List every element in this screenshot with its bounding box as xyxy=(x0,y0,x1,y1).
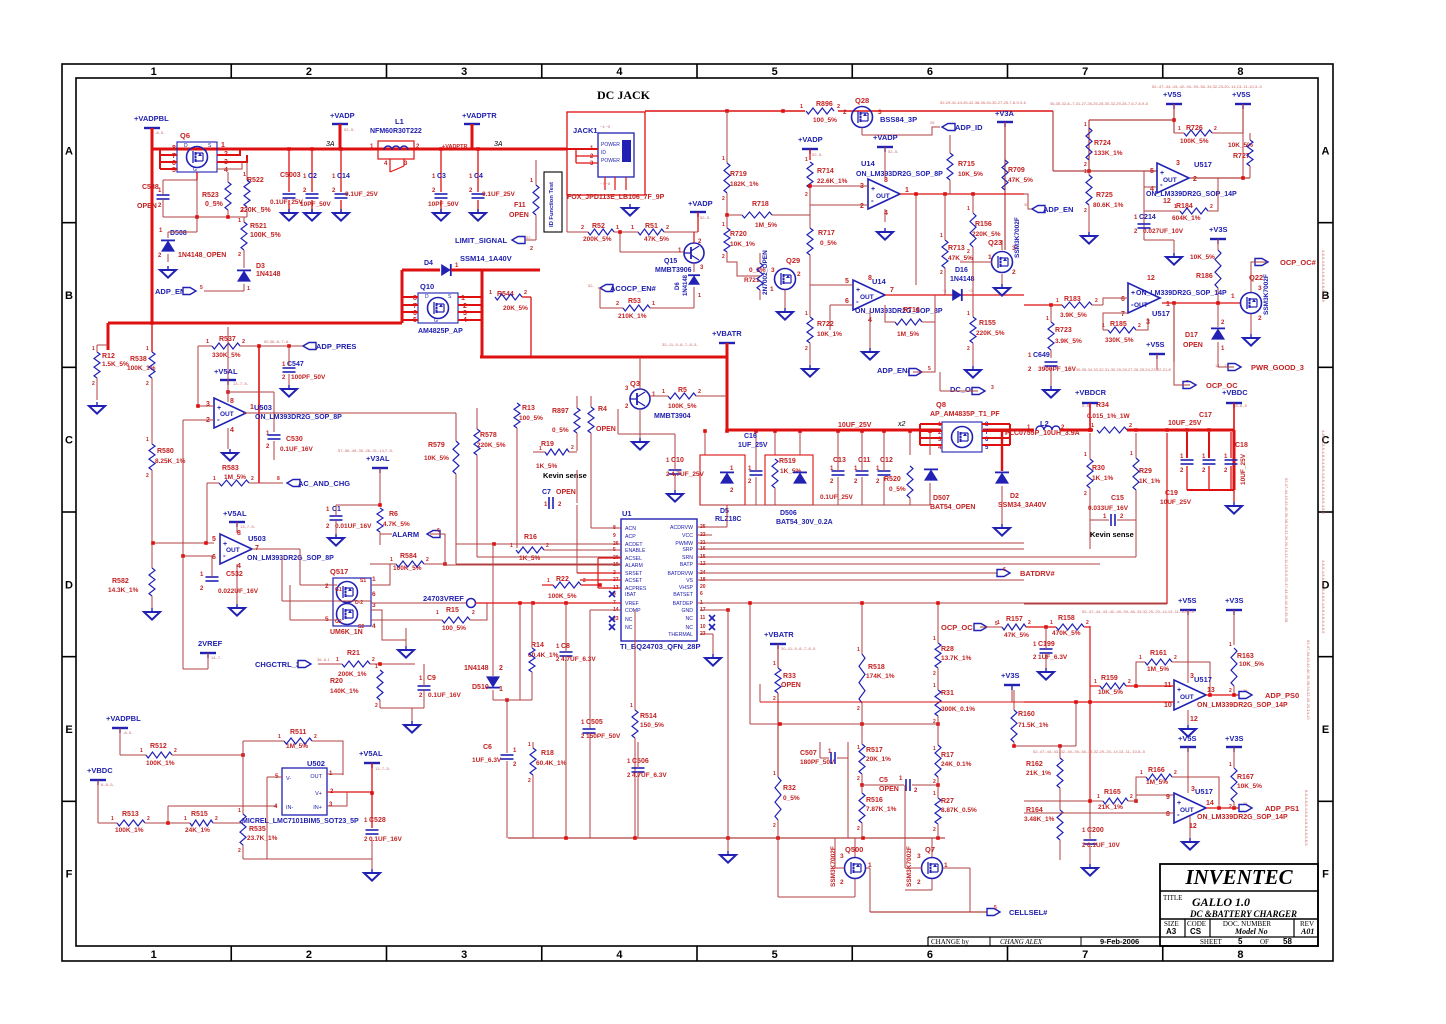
svg-text:2: 2 xyxy=(1086,620,1089,626)
svg-text:+: + xyxy=(1177,800,1181,807)
svg-text:SSM3K7002F: SSM3K7002F xyxy=(1263,274,1270,315)
svg-text:Q28: Q28 xyxy=(855,96,869,105)
svg-text:+: + xyxy=(1131,290,1135,297)
svg-text:21K_1%: 21K_1% xyxy=(1026,770,1051,777)
svg-text:1: 1 xyxy=(698,293,701,299)
svg-text:220K_5%: 220K_5% xyxy=(240,207,272,214)
svg-text:0.1UF_16V: 0.1UF_16V xyxy=(280,446,314,453)
svg-text:BAT54_OPEN: BAT54_OPEN xyxy=(930,504,975,511)
svg-text:OUT: OUT xyxy=(1134,302,1148,309)
svg-text:AC_AND_CHG: AC_AND_CHG xyxy=(298,479,350,488)
svg-text:U517: U517 xyxy=(1194,160,1212,169)
svg-text:SRSET: SRSET xyxy=(625,571,643,577)
svg-text:4.7UF_25V: 4.7UF_25V xyxy=(671,471,705,478)
svg-text:100PF_50V: 100PF_50V xyxy=(291,374,326,381)
svg-text:R523: R523 xyxy=(202,192,219,199)
svg-text:+VBATR: +VBATR xyxy=(712,329,742,338)
svg-text:+V3S: +V3S xyxy=(1209,225,1228,234)
svg-text:52-47-44-43-42-40-39-38-34-32-: 52-47-44-43-42-40-39-38-34-32-29-20-14-1… xyxy=(1284,478,1289,623)
svg-text:1: 1 xyxy=(1084,452,1087,458)
svg-text:R53: R53 xyxy=(628,298,641,305)
svg-text:8: 8 xyxy=(1166,811,1170,818)
svg-text:R162: R162 xyxy=(1026,761,1043,768)
svg-text:8.25K_1%: 8.25K_1% xyxy=(155,458,186,465)
svg-text:R30: R30 xyxy=(1092,465,1105,472)
svg-text:1: 1 xyxy=(238,218,241,224)
svg-text:2: 2 xyxy=(1028,620,1031,626)
svg-text:G1: G1 xyxy=(335,587,342,593)
svg-text:C10: C10 xyxy=(671,457,684,464)
svg-text:2: 2 xyxy=(146,473,149,479)
svg-text:F: F xyxy=(1322,869,1329,881)
svg-text:Q6: Q6 xyxy=(180,131,190,140)
svg-text:100_5%: 100_5% xyxy=(442,625,466,632)
svg-text:R155: R155 xyxy=(979,320,996,327)
svg-text:OCP_OC#: OCP_OC# xyxy=(1280,258,1317,267)
svg-text:2: 2 xyxy=(933,719,936,725)
svg-text:POWER: POWER xyxy=(601,158,620,164)
svg-text:1: 1 xyxy=(1174,204,1177,210)
svg-text:R514: R514 xyxy=(640,713,657,720)
svg-text:R578: R578 xyxy=(480,432,497,439)
svg-text:1: 1 xyxy=(997,620,1000,626)
svg-text:1: 1 xyxy=(1231,293,1235,300)
svg-text:C13: C13 xyxy=(833,457,846,464)
svg-text:S1: S1 xyxy=(360,578,366,584)
svg-text:10K_5%: 10K_5% xyxy=(1237,783,1262,790)
svg-text:R715: R715 xyxy=(958,161,975,168)
svg-text:C4: C4 xyxy=(474,173,483,180)
svg-text:R13: R13 xyxy=(522,405,535,412)
svg-text:R15: R15 xyxy=(446,607,459,614)
svg-text:60.4K_1%: 60.4K_1% xyxy=(528,652,559,659)
svg-text:A01: A01 xyxy=(1300,927,1314,936)
svg-text:ON_UM393DR2G_SOP_8P: ON_UM393DR2G_SOP_8P xyxy=(855,308,943,315)
svg-text:2: 2 xyxy=(375,703,378,709)
svg-text:30-.11-.9-.8-.7-.6-.5: 30-.11-.9-.8-.7-.6-.5 xyxy=(781,646,816,651)
svg-text:+VBDC: +VBDC xyxy=(87,766,113,775)
svg-text:1: 1 xyxy=(547,578,550,584)
svg-text:R159: R159 xyxy=(1101,675,1118,682)
svg-text:F: F xyxy=(66,869,73,881)
svg-text:3: 3 xyxy=(771,267,775,274)
svg-text:6: 6 xyxy=(1003,567,1006,573)
svg-text:U517: U517 xyxy=(1194,675,1212,684)
svg-text:+V3AL: +V3AL xyxy=(366,454,390,463)
svg-text:1: 1 xyxy=(967,311,970,317)
svg-text:R516: R516 xyxy=(866,797,883,804)
svg-text:R718: R718 xyxy=(752,201,769,208)
svg-text:0.1UF_25V: 0.1UF_25V xyxy=(820,494,854,501)
svg-text:1: 1 xyxy=(151,66,157,78)
svg-text:+V5AL: +V5AL xyxy=(214,367,238,376)
svg-text:PWR_GOOD_3: PWR_GOOD_3 xyxy=(1251,363,1304,372)
svg-text:6: 6 xyxy=(927,66,933,78)
svg-text:C15: C15 xyxy=(1111,495,1124,502)
svg-text:1: 1 xyxy=(146,346,149,352)
svg-text:150_5%: 150_5% xyxy=(640,722,664,729)
svg-text:3.48K_1%: 3.48K_1% xyxy=(1024,816,1055,823)
svg-text:7: 7 xyxy=(890,287,894,294)
svg-text:ADP_EN#: ADP_EN# xyxy=(877,366,912,375)
svg-text:C214: C214 xyxy=(1139,214,1156,221)
svg-text:1: 1 xyxy=(805,311,808,317)
svg-text:OCP_OC: OCP_OC xyxy=(941,623,973,632)
svg-text:1M_5%: 1M_5% xyxy=(224,474,246,481)
svg-text:1: 1 xyxy=(278,734,281,740)
svg-text:ON_LM393DR2G_SOP_8P: ON_LM393DR2G_SOP_8P xyxy=(247,555,334,562)
svg-text:OUT: OUT xyxy=(310,774,322,780)
svg-text:23.7K_1%: 23.7K_1% xyxy=(247,835,278,842)
svg-text:57-.56-.49-.30-.26-.31-.14,7-.: 57-.56-.49-.30-.26-.31-.14,7-.5- xyxy=(338,448,394,453)
svg-text:4-8-6-4-8-6-4-8-6-4-8-6-4-8-6-: 4-8-6-4-8-6-4-8-6-4-8-6-4-8-6-4-8-6-4-8-… xyxy=(1321,430,1326,515)
svg-text:2: 2 xyxy=(1130,794,1133,800)
svg-text:0.1UF_25V: 0.1UF_25V xyxy=(345,191,379,198)
svg-text:71.5K_1%: 71.5K_1% xyxy=(1018,722,1049,729)
svg-text:0.033UF_16V: 0.033UF_16V xyxy=(1088,505,1129,512)
svg-text:DC JACK: DC JACK xyxy=(597,88,651,102)
svg-text:BATP: BATP xyxy=(680,562,694,568)
svg-text:V-: V- xyxy=(286,776,291,782)
svg-text:R21: R21 xyxy=(347,650,360,657)
svg-text:1: 1 xyxy=(390,557,393,563)
svg-text:GND: GND xyxy=(681,608,693,614)
svg-text:R51: R51 xyxy=(645,223,658,230)
svg-text:BATSET: BATSET xyxy=(673,592,694,598)
svg-text:330K_5%: 330K_5% xyxy=(212,352,241,359)
svg-text:3: 3 xyxy=(1176,160,1180,167)
svg-text:2: 2 xyxy=(967,249,970,255)
svg-text:1: 1 xyxy=(1140,770,1143,776)
svg-text:2: 2 xyxy=(426,557,429,563)
svg-text:1N4148: 1N4148 xyxy=(256,271,281,278)
svg-text:1: 1 xyxy=(631,225,634,231)
svg-text:BAT54_30V_0.2A: BAT54_30V_0.2A xyxy=(776,519,833,526)
svg-text:R519: R519 xyxy=(779,458,796,465)
svg-text:3: 3 xyxy=(461,949,467,961)
svg-text:C: C xyxy=(65,435,73,447)
svg-text:1N4148: 1N4148 xyxy=(464,665,489,672)
svg-text:NC: NC xyxy=(625,617,633,623)
svg-text:+V5S: +V5S xyxy=(1146,340,1165,349)
svg-text:1: 1 xyxy=(630,703,633,709)
svg-text:MMBT3906: MMBT3906 xyxy=(655,267,692,274)
svg-text:220K_5%: 220K_5% xyxy=(976,330,1005,337)
svg-text:E: E xyxy=(1322,724,1329,736)
svg-text:C14: C14 xyxy=(337,173,350,180)
svg-text:13.7K_1%: 13.7K_1% xyxy=(941,655,972,662)
svg-text:1: 1 xyxy=(206,339,209,345)
svg-text:10K_5%: 10K_5% xyxy=(1239,661,1264,668)
svg-text:CS: CS xyxy=(1190,927,1202,936)
svg-text:SSM3K7002F: SSM3K7002F xyxy=(1014,217,1021,258)
svg-text:D3: D3 xyxy=(256,263,265,270)
svg-text:1: 1 xyxy=(247,286,250,292)
svg-text:R584: R584 xyxy=(400,553,417,560)
svg-text:4-8-6-4-8-6-4-8-6-4-8-6-4-8-5: 4-8-6-4-8-6-4-8-6-4-8-6-4-8-5 xyxy=(1321,250,1326,303)
svg-text:R161: R161 xyxy=(1150,650,1167,657)
svg-text:R719: R719 xyxy=(730,171,747,178)
svg-text:6: 6 xyxy=(212,554,216,561)
svg-text:D508: D508 xyxy=(170,230,187,237)
svg-text:200K_5%: 200K_5% xyxy=(583,236,612,243)
svg-text:2: 2 xyxy=(1012,269,1016,276)
svg-text:R537: R537 xyxy=(219,336,236,343)
svg-text:8: 8 xyxy=(277,476,280,482)
svg-text:36-.6-1: 36-.6-1 xyxy=(317,657,330,662)
svg-text:COMP: COMP xyxy=(625,608,641,614)
svg-text:OUT: OUT xyxy=(226,547,240,554)
svg-text:C18: C18 xyxy=(1235,442,1248,449)
svg-text:2: 2 xyxy=(857,826,860,832)
svg-text:+: + xyxy=(1160,170,1164,177)
svg-text:C6: C6 xyxy=(483,744,492,751)
svg-text:OUT: OUT xyxy=(1180,807,1194,814)
svg-text:1: 1 xyxy=(213,476,216,482)
svg-text:D510: D510 xyxy=(472,684,489,691)
svg-text:7: 7 xyxy=(1121,311,1125,318)
svg-text:52-: 52- xyxy=(526,235,532,240)
svg-text:2: 2 xyxy=(583,578,586,584)
svg-text:52-.5-: 52-.5- xyxy=(888,149,899,154)
svg-text:2: 2 xyxy=(306,66,312,78)
svg-text:C5003: C5003 xyxy=(280,172,301,179)
svg-text:52-.5-: 52-.5- xyxy=(344,127,355,132)
svg-text:1: 1 xyxy=(773,771,776,777)
svg-text:ADP_PRES: ADP_PRES xyxy=(316,342,356,351)
svg-text:6: 6 xyxy=(1121,296,1125,303)
svg-text:+V5S: +V5S xyxy=(1163,90,1182,99)
svg-text:2: 2 xyxy=(546,543,549,549)
svg-text:2: 2 xyxy=(1210,204,1213,210)
svg-text:1M_5%: 1M_5% xyxy=(897,331,919,338)
svg-text:ON_LM339DR2G_SOP_14P: ON_LM339DR2G_SOP_14P xyxy=(1197,814,1288,821)
svg-text:330K_5%: 330K_5% xyxy=(1105,337,1134,344)
svg-text:1: 1 xyxy=(722,222,725,228)
svg-text:+: + xyxy=(856,287,860,294)
svg-text:1: 1 xyxy=(1056,298,1059,304)
svg-text:OPEN: OPEN xyxy=(879,786,899,793)
svg-text:0_5%: 0_5% xyxy=(889,486,906,493)
svg-text:R722: R722 xyxy=(817,321,834,328)
svg-text:C16: C16 xyxy=(744,433,757,440)
svg-text:1: 1 xyxy=(770,286,774,293)
svg-text:2: 2 xyxy=(581,225,584,231)
svg-text:+V5AL: +V5AL xyxy=(223,509,247,518)
svg-text:Q15: Q15 xyxy=(664,258,677,265)
svg-text:C12: C12 xyxy=(880,457,893,464)
svg-text:Q517: Q517 xyxy=(330,567,348,576)
svg-text:R27: R27 xyxy=(941,798,954,805)
svg-text:VS: VS xyxy=(686,578,693,584)
svg-text:10UF_25V: 10UF_25V xyxy=(838,422,872,429)
svg-text:+V5S: +V5S xyxy=(1178,596,1197,605)
svg-text:DC &BATTERY CHARGER: DC &BATTERY CHARGER xyxy=(1189,909,1297,919)
svg-text:Q7: Q7 xyxy=(925,845,935,854)
svg-text:Q500: Q500 xyxy=(845,845,863,854)
svg-text:1: 1 xyxy=(375,664,378,670)
svg-text:+VADP: +VADP xyxy=(798,135,823,144)
svg-text:R184: R184 xyxy=(1176,203,1193,210)
svg-text:+V5S: +V5S xyxy=(1178,734,1197,743)
svg-text:2: 2 xyxy=(146,381,149,387)
svg-text:5: 5 xyxy=(1150,168,1154,175)
svg-text:1: 1 xyxy=(933,746,936,752)
svg-text:C532: C532 xyxy=(226,571,243,578)
svg-text:5: 5 xyxy=(200,285,203,291)
svg-text:C9: C9 xyxy=(427,675,436,682)
svg-text:5: 5 xyxy=(212,536,216,543)
svg-text:3: 3 xyxy=(206,401,210,408)
svg-text:1: 1 xyxy=(243,172,246,178)
svg-text:U14: U14 xyxy=(872,277,887,286)
svg-text:0.01UF_16V: 0.01UF_16V xyxy=(335,523,372,530)
svg-text:2: 2 xyxy=(1129,423,1132,429)
svg-text:1: 1 xyxy=(652,301,655,307)
svg-text:2: 2 xyxy=(499,665,503,672)
svg-text:1: 1 xyxy=(489,290,492,296)
svg-text:80.6K_1%: 80.6K_1% xyxy=(1093,202,1124,209)
svg-text:R160: R160 xyxy=(1018,711,1035,718)
svg-text:2: 2 xyxy=(1084,208,1087,214)
svg-text:1: 1 xyxy=(616,225,619,231)
svg-text:0.022UF_16V: 0.022UF_16V xyxy=(218,588,259,595)
svg-text:1: 1 xyxy=(905,187,909,194)
svg-text:R19: R19 xyxy=(541,441,554,448)
svg-text:IN+: IN+ xyxy=(313,805,322,811)
svg-text:22.6K_1%: 22.6K_1% xyxy=(817,178,848,185)
svg-text:21K_1%: 21K_1% xyxy=(1098,804,1123,811)
svg-text:R165: R165 xyxy=(1104,789,1121,796)
svg-text:VCC: VCC xyxy=(682,533,693,539)
svg-text:2: 2 xyxy=(1229,804,1232,810)
svg-text:SSM34_3A40V: SSM34_3A40V xyxy=(998,502,1047,509)
svg-text:OPEN: OPEN xyxy=(596,426,616,433)
svg-text:ON_LM339DR2G_SOP_14P: ON_LM339DR2G_SOP_14P xyxy=(1146,191,1237,198)
svg-text:182K_1%: 182K_1% xyxy=(730,181,759,188)
svg-text:200K_1%: 200K_1% xyxy=(338,671,367,678)
svg-text:-8-.5-: -8-.5- xyxy=(155,130,165,135)
svg-text:2: 2 xyxy=(837,104,840,110)
svg-text:R6: R6 xyxy=(389,511,398,518)
svg-text:52-.5-: 52-.5- xyxy=(812,152,823,157)
svg-text:12: 12 xyxy=(1147,275,1155,282)
svg-text:R5: R5 xyxy=(678,387,687,394)
svg-text:ENABLE: ENABLE xyxy=(625,548,646,554)
svg-text:+VBDC: +VBDC xyxy=(1222,388,1248,397)
svg-text:ON_LM393DR2G_SOP_8P: ON_LM393DR2G_SOP_8P xyxy=(255,414,342,421)
svg-text:SRP: SRP xyxy=(682,547,693,553)
svg-text:A: A xyxy=(65,145,73,157)
svg-text:13: 13 xyxy=(1207,687,1215,694)
svg-text:ACN: ACN xyxy=(625,526,636,532)
svg-text:52-.5-: 52-.5- xyxy=(700,215,711,220)
svg-text:2VREF: 2VREF xyxy=(198,639,223,648)
svg-text:R17: R17 xyxy=(941,752,954,759)
svg-text:14-.7-: 14-.7- xyxy=(211,655,222,660)
svg-text:R18: R18 xyxy=(541,750,554,757)
svg-text:1: 1 xyxy=(1094,679,1097,685)
svg-text:FOX_JPD113E_LB106_7F_9P: FOX_JPD113E_LB106_7F_9P xyxy=(567,194,665,201)
svg-text:Q3: Q3 xyxy=(630,379,640,388)
svg-text:OUT: OUT xyxy=(876,193,890,200)
svg-text:1: 1 xyxy=(1084,169,1087,175)
svg-text:ON_LM339DR2G_SOP_14P: ON_LM339DR2G_SOP_14P xyxy=(1197,702,1288,709)
svg-text:100K_5%: 100K_5% xyxy=(548,593,577,600)
svg-text:2: 2 xyxy=(843,109,847,116)
svg-text:12: 12 xyxy=(1163,198,1171,205)
svg-text:5: 5 xyxy=(994,905,997,911)
svg-text:D506: D506 xyxy=(780,510,797,517)
svg-text:2: 2 xyxy=(92,381,95,387)
svg-text:L1: L1 xyxy=(395,117,404,126)
svg-text:VREF: VREF xyxy=(625,601,639,607)
svg-text:RLZ18C: RLZ18C xyxy=(715,516,741,523)
svg-text:2: 2 xyxy=(805,192,808,198)
svg-text:4: 4 xyxy=(237,563,241,570)
svg-text:24K_1%: 24K_1% xyxy=(185,827,210,834)
svg-text:R897: R897 xyxy=(552,408,569,415)
svg-text:3.9K_5%: 3.9K_5% xyxy=(1060,312,1087,319)
svg-text:1N4148: 1N4148 xyxy=(683,274,689,296)
svg-text:1: 1 xyxy=(722,156,725,162)
svg-text:~4 ~5: ~4 ~5 xyxy=(600,124,611,129)
svg-text:10K_5%: 10K_5% xyxy=(958,171,983,178)
svg-text:R515: R515 xyxy=(191,811,208,818)
svg-text:+VADPBL: +VADPBL xyxy=(106,714,141,723)
svg-text:8-.8-.5-: 8-.8-.5- xyxy=(101,782,115,787)
svg-text:Kevin sense: Kevin sense xyxy=(1090,530,1134,539)
svg-text:1: 1 xyxy=(800,104,803,110)
svg-text:ALARM: ALARM xyxy=(392,530,419,539)
svg-text:12: 12 xyxy=(1190,716,1198,723)
svg-text:20K_5%: 20K_5% xyxy=(503,305,528,312)
svg-text:+VADP: +VADP xyxy=(873,133,898,142)
svg-text:ALARM: ALARM xyxy=(625,563,643,569)
svg-text:1: 1 xyxy=(146,437,149,443)
svg-text:C7: C7 xyxy=(542,489,551,496)
svg-text:52-.47-.44-.43-.42-.40-.39-.38: 52-.47-.44-.43-.42-.40-.39-.38-.34,32-29… xyxy=(1082,609,1195,614)
svg-text:2: 2 xyxy=(933,827,936,833)
svg-text:50-36-.8-.7-.6-: 50-36-.8-.7-.6- xyxy=(264,339,290,344)
svg-text:CHGCTRL_3: CHGCTRL_3 xyxy=(255,660,300,669)
svg-text:1: 1 xyxy=(857,647,860,653)
svg-text:+VBDCR: +VBDCR xyxy=(1075,388,1107,397)
svg-text:+: + xyxy=(1177,687,1181,694)
svg-text:9-Feb-2006: 9-Feb-2006 xyxy=(1100,937,1139,946)
svg-text:2: 2 xyxy=(530,246,533,252)
svg-text:1: 1 xyxy=(1091,423,1094,429)
svg-text:C506: C506 xyxy=(632,758,649,765)
svg-text:ON_LM393DR2G_SOP_8P: ON_LM393DR2G_SOP_8P xyxy=(856,171,943,178)
svg-text:U1: U1 xyxy=(622,509,632,518)
svg-text:C588: C588 xyxy=(142,184,159,191)
svg-text:E: E xyxy=(65,724,72,736)
svg-text:2: 2 xyxy=(241,207,244,213)
svg-text:1K_5%: 1K_5% xyxy=(519,555,541,562)
svg-text:220K_5%: 220K_5% xyxy=(477,442,506,449)
svg-text:13-.7-.5-: 13-.7-.5- xyxy=(240,524,256,529)
svg-text:OUT: OUT xyxy=(220,411,234,418)
svg-text:1: 1 xyxy=(1097,794,1100,800)
svg-text:2: 2 xyxy=(933,779,936,785)
svg-text:D: D xyxy=(184,143,188,149)
svg-text:+VADPTR: +VADPTR xyxy=(442,144,467,150)
svg-text:D: D xyxy=(425,294,429,300)
svg-text:C530: C530 xyxy=(286,436,303,443)
svg-text:D16: D16 xyxy=(955,267,968,274)
svg-text:-: - xyxy=(871,196,874,205)
